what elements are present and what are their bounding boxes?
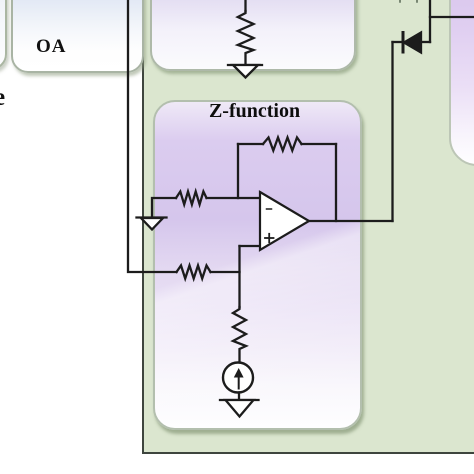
wire: long feed from top-left down to lower input <box>128 0 177 272</box>
OA block <box>11 0 144 73</box>
wire: R3 to node A <box>211 271 240 273</box>
resistor R5 (supply, vertical) <box>238 11 254 64</box>
Z-function block <box>153 100 362 430</box>
wire: node A to op-amp + input <box>240 245 261 247</box>
label Z-function <box>150 100 359 123</box>
resistor R4 (bias, vertical) <box>233 307 246 363</box>
current source I1 <box>223 363 253 393</box>
tick marks: cut-off symbol at top <box>400 0 417 2</box>
wire: arrow stub into R2 <box>152 198 176 217</box>
label e (cut off at left edge) <box>0 84 5 112</box>
right-hand block (cut off right) <box>449 0 474 166</box>
diode D1 (pointing left) <box>403 33 421 53</box>
partial block far left (cut off) <box>0 0 7 70</box>
wire: branch into right-hand block <box>430 16 474 18</box>
wire: I1 to ground <box>238 393 240 401</box>
outer green panel (block border) <box>142 0 474 454</box>
input arrow (open, pointing down) <box>137 218 167 230</box>
wire: diode anode to top-right riser <box>421 41 430 43</box>
wire: riser up to diode <box>391 42 393 221</box>
wire: op-amp output to riser <box>309 220 393 222</box>
wire: R1 to feedback drop <box>302 143 337 145</box>
resistor R2 (inverting input, horizontal) <box>176 192 207 205</box>
wire: top-right riser <box>429 0 431 42</box>
wire: feedback tap down to - input <box>237 144 239 198</box>
node A: junction to + input and bias chain <box>238 246 240 307</box>
wire: tap to R1 <box>238 143 263 145</box>
wire: riser to diode cathode <box>393 41 404 43</box>
resistor R3 (lower input, horizontal) <box>177 266 211 279</box>
ground (below current source) <box>220 400 259 417</box>
wire: R2 to op-amp - input <box>207 197 261 199</box>
resistor R1 (feedback, horizontal) <box>263 138 302 151</box>
upper supply block <box>150 0 356 71</box>
wire: feedback drop to output <box>335 144 337 221</box>
label OA <box>36 36 67 58</box>
ground (supply block) <box>228 65 262 78</box>
wire: supply resistor lead <box>244 0 246 11</box>
op-amp U1 <box>260 192 309 250</box>
